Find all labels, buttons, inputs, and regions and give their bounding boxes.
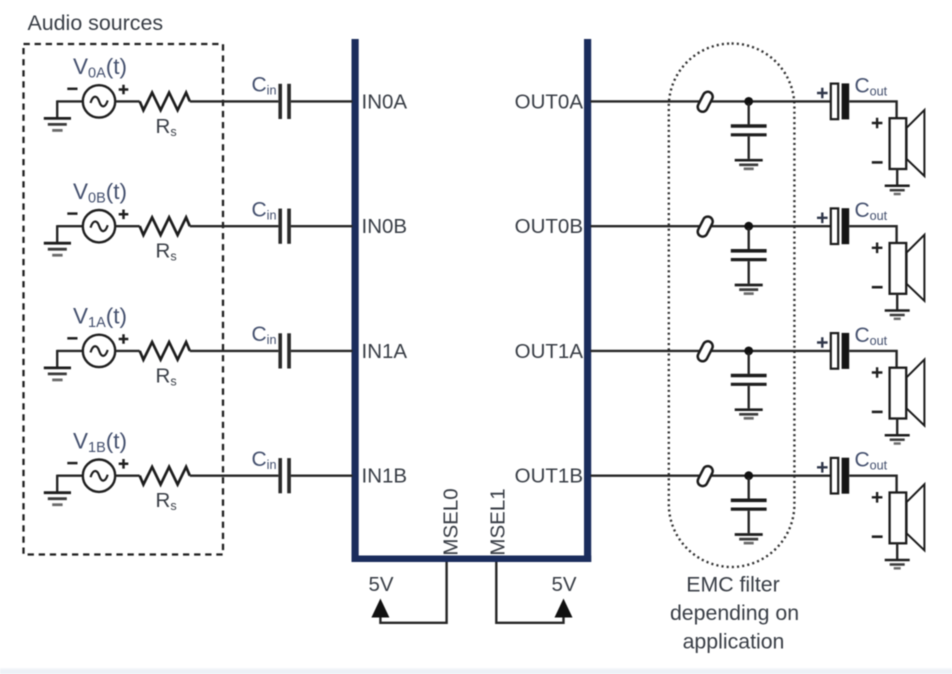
svg-text:MSEL1: MSEL1 xyxy=(487,488,510,555)
svg-text:IN0A: IN0A xyxy=(362,90,408,113)
svg-text:5V: 5V xyxy=(368,573,393,596)
svg-text:depending on: depending on xyxy=(670,601,799,625)
svg-text:OUT0A: OUT0A xyxy=(515,90,584,113)
svg-text:OUT0B: OUT0B xyxy=(515,215,583,238)
svg-text:IN1A: IN1A xyxy=(362,340,408,363)
svg-text:Audio sources: Audio sources xyxy=(28,11,164,35)
svg-text:EMC filter: EMC filter xyxy=(686,573,779,597)
svg-text:MSEL0: MSEL0 xyxy=(440,488,463,555)
svg-text:5V: 5V xyxy=(551,573,576,596)
svg-text:IN1B: IN1B xyxy=(362,465,408,488)
svg-text:OUT1A: OUT1A xyxy=(515,340,584,363)
svg-text:OUT1B: OUT1B xyxy=(515,465,583,488)
svg-text:application: application xyxy=(683,630,785,654)
svg-text:IN0B: IN0B xyxy=(362,215,408,238)
